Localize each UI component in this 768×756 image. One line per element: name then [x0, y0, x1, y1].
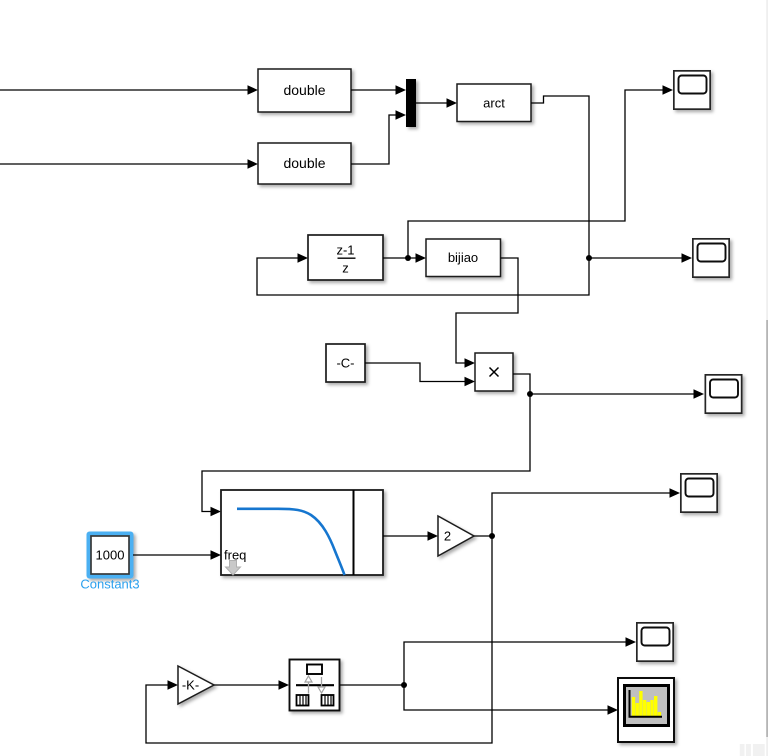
wire z-1/z to bijiao [383, 253, 426, 262]
svg-text:2: 2 [444, 529, 451, 544]
scope Scope1 [674, 71, 710, 109]
wire bijiao to Product in1 [456, 258, 518, 368]
block bijiao [426, 239, 501, 277]
svg-text:z: z [342, 261, 349, 276]
block Product [475, 353, 513, 391]
wire -C- to Product in2 [365, 363, 475, 386]
svg-text:arct: arct [483, 96, 505, 111]
node junction after Gain2 [489, 533, 495, 539]
wire branch to SpectrumScope [404, 685, 618, 715]
block DataTypeConversion2 "double" [258, 143, 351, 184]
block DiscreteDerivative z-1/z [308, 235, 383, 280]
scope Scope2 [693, 239, 729, 277]
block DigitalFilterDesign [221, 490, 383, 575]
node junction after Product [527, 391, 533, 397]
svg-text:-K-: -K- [182, 678, 199, 693]
gain Gain1 "-K-" [178, 666, 214, 704]
svg-text:-C-: -C- [336, 356, 354, 371]
wire double1 to Mux in1 [351, 85, 406, 94]
wire Mux to arct [416, 98, 457, 107]
wire double2 to Mux in2 [351, 110, 406, 164]
block DataTypeConversion1 "double" [258, 69, 351, 112]
wire feedback branch to -K- gain [146, 536, 492, 743]
svg-text:1000: 1000 [96, 548, 125, 563]
scrollbar thumb right [766, 320, 768, 737]
wire Product output down to junction [513, 374, 530, 394]
wire branch to Scope5 [404, 637, 636, 685]
wire feedback branch to z-1/z input [257, 253, 589, 295]
node junction after z-1/z [405, 255, 411, 261]
block arct [457, 84, 531, 122]
block SpectrumScope B-FFT [618, 678, 674, 742]
scope Scope5 [637, 623, 673, 661]
wire Constant3 to freq port [133, 550, 221, 559]
wire In1 to DataTypeConversion1 [0, 85, 258, 94]
node junction after Buffer [401, 682, 407, 688]
svg-text:double: double [283, 82, 325, 98]
svg-text:bijiao: bijiao [448, 250, 478, 265]
wire branch to filter input [202, 394, 530, 516]
gain Gain2 "2" [438, 516, 474, 556]
block Buffer [290, 660, 340, 711]
scope Scope3 [705, 375, 741, 413]
wire In2 to DataTypeConversion2 [0, 159, 258, 168]
wire arct output trunk [531, 96, 589, 258]
svg-text:double: double [283, 155, 325, 171]
wire Buffer output to junction [340, 684, 404, 686]
mux Mux [406, 79, 416, 127]
wire -K- to Buffer [214, 680, 289, 689]
block Constant -C- [326, 344, 365, 382]
svg-text:z-1: z-1 [336, 243, 354, 258]
wire branch z-1/z output to Scope1 [408, 85, 673, 258]
scrollbar pieces bottom right [740, 744, 765, 756]
svg-text:Constant3: Constant3 [80, 577, 139, 592]
icon grey pause arrow under freq [226, 561, 241, 576]
block Constant3 selection highlight [87, 532, 134, 579]
wire filter to Gain2 [383, 531, 438, 540]
wire Gain2 output to junction [474, 535, 492, 537]
wire branch to Scope4 [492, 488, 680, 536]
scope Scope4 [681, 474, 717, 512]
wire branch to Scope3 [530, 389, 704, 398]
node junction on arct line [586, 255, 592, 261]
scrollbar track right [766, 0, 768, 756]
wire branch to Scope2 [589, 253, 692, 262]
